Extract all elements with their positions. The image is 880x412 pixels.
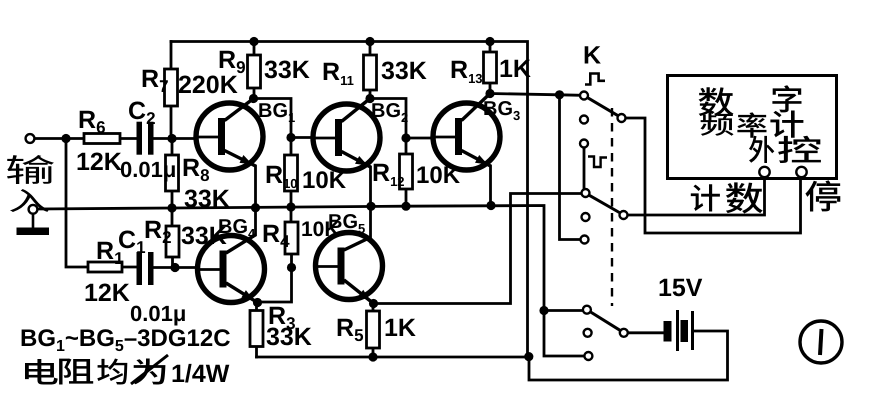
svg-text:1K: 1K <box>499 55 531 83</box>
switch K section a pole <box>618 114 626 122</box>
wire: BG1 emitter / BG4 collector vertical <box>254 166 257 235</box>
svg-text:220K: 220K <box>178 71 238 99</box>
note resistor rating 阻 <box>59 358 93 384</box>
wire: R8 leads <box>171 139 174 209</box>
resistor R11 <box>364 55 377 90</box>
wire: R11 leads <box>369 42 372 99</box>
switch K section b pole <box>620 211 628 219</box>
svg-text:BG1~BG5–3DG12C: BG1~BG5–3DG12C <box>20 325 231 355</box>
note resistor rating 电 <box>25 359 58 384</box>
node R9 top <box>249 37 258 46</box>
svg-text:12K: 12K <box>76 148 122 176</box>
wire: BG3 emitter to ground rail <box>489 166 492 206</box>
svg-text:10K: 10K <box>302 167 347 194</box>
label 外 (ext ctl) <box>749 136 774 163</box>
resistor R12 <box>400 154 413 189</box>
node BG1 collector <box>249 94 258 103</box>
svg-text:0.01μ: 0.01μ <box>130 301 186 326</box>
node BG3 base <box>401 133 410 142</box>
node input <box>61 134 70 143</box>
wire: square-wave drop to switch throw 3b <box>560 95 582 240</box>
label 计 (counter) <box>770 111 803 138</box>
wire: battery negative to power switch pole <box>628 331 663 334</box>
wire: input top terminal to R6 <box>35 137 85 140</box>
wire: R5 leads <box>372 304 375 358</box>
wire: BG2 base wire <box>291 136 337 139</box>
resistor R6 <box>84 134 120 144</box>
switch K section a throw 3 <box>580 140 588 148</box>
svg-text:33K: 33K <box>266 323 312 351</box>
wire: BG2 emitter / BG5 collector vertical <box>369 167 372 237</box>
switch K section a throw 2 <box>580 116 588 124</box>
wire: switch blade b <box>589 195 620 213</box>
label 率 (counter) <box>737 112 766 137</box>
label 停 (stop) <box>805 180 840 211</box>
svg-text:1/4W: 1/4W <box>171 360 230 388</box>
wire: power switch blade a <box>588 98 619 116</box>
wire: switch blade c <box>590 312 620 331</box>
node R5 bottom <box>368 352 377 361</box>
node R12 ground <box>401 202 410 211</box>
switch K section b throw 2 <box>582 213 590 221</box>
icon pulse-wave symbol <box>588 157 607 168</box>
figure number 1 in circle <box>800 321 842 363</box>
node square-wave out <box>555 90 564 99</box>
node BG2 emitter ground <box>366 202 375 211</box>
switch K section c throw 3 <box>584 352 592 360</box>
wire: BG5 emitter pulse output to switch throw 1b <box>374 194 583 304</box>
switch K section c throw 1 <box>583 306 591 314</box>
wire: switch pole a to counter STOP terminal <box>626 118 801 233</box>
node BG5 emitter out <box>369 299 378 308</box>
resistor R9 <box>248 55 261 88</box>
node BG3 emitter ground <box>486 201 495 210</box>
node R11 top <box>365 37 374 46</box>
resistor R3 <box>250 311 263 347</box>
label 计 (count) <box>691 184 720 211</box>
wire: R13 leads <box>489 42 492 94</box>
wire: +15V bottom rail <box>257 356 529 359</box>
wire: ganged-switch dashed link <box>611 108 613 306</box>
node BG3 collector <box>485 89 494 98</box>
wire: R9 leads <box>253 42 256 99</box>
svg-text:33K: 33K <box>264 56 310 84</box>
capacitor C1 <box>137 252 143 285</box>
wire: +15V top rail with right-side drop to bottom rail <box>171 42 528 357</box>
node R10 ground <box>286 202 295 211</box>
wire: R7 leads <box>170 42 173 139</box>
wire: C2 to BG1 base node and base <box>153 137 196 140</box>
counter STOP terminal <box>796 167 806 177</box>
label input 输 <box>7 155 54 184</box>
resistor R2 <box>166 226 179 257</box>
svg-text:33K: 33K <box>184 185 230 213</box>
wire: R12 leads <box>405 138 408 206</box>
input terminal top <box>26 134 35 143</box>
wire: battery positive to bottom rail loop <box>529 331 728 380</box>
wire: ground branch to power switch top throw <box>544 309 583 312</box>
resistor R8 <box>166 155 179 191</box>
capacitor C2 <box>137 122 143 155</box>
wire: R6 to C2 <box>120 137 137 140</box>
resistor R7 <box>165 69 178 106</box>
label 数 (count) <box>726 182 763 213</box>
note resistor rating 为 <box>133 359 166 385</box>
switch K section b throw 1 <box>582 189 590 197</box>
node BG1 emitter ground <box>251 203 260 212</box>
switch K section a throw 1 <box>580 92 588 100</box>
switch K section b throw 3 <box>581 236 589 244</box>
wire: BG3 base wire <box>406 137 456 140</box>
wire: switch pole b to counter COUNT terminal <box>628 177 765 215</box>
wire: BG1 collector node to BG2 base (R10 tap) <box>254 99 292 138</box>
node R8 ground <box>167 203 176 212</box>
resistor R13 <box>484 52 497 83</box>
wire: R4 leads <box>290 207 293 268</box>
ground <box>17 214 50 235</box>
wire: R2 leads <box>171 208 174 268</box>
icon square-wave symbol <box>585 74 605 85</box>
wire: R10 leads <box>290 138 293 208</box>
svg-text:1K: 1K <box>384 314 416 342</box>
wire: R3 leads <box>255 303 258 358</box>
wire: BG3 output square-wave to switch throw 1a <box>490 94 581 96</box>
label 频 (counter) <box>701 112 734 135</box>
input terminal bottom <box>29 205 38 214</box>
switch K section c throw 2 <box>584 329 592 337</box>
transistor BG3 <box>433 94 501 171</box>
note resistor rating 均 <box>97 358 127 384</box>
resistor R1 <box>88 262 122 272</box>
label 控 (ext ctl) <box>778 136 821 163</box>
wire: input node down-branch to R1 <box>66 139 88 268</box>
wire: BG2 collector node to BG3 base (R12 tap) <box>370 99 406 139</box>
battery 15V <box>664 310 693 351</box>
svg-text:10K: 10K <box>416 162 461 189</box>
node bottom rail B+ <box>524 352 533 361</box>
svg-text:15V: 15V <box>658 274 703 302</box>
wire: link throw 3a to throw 1b <box>583 148 586 190</box>
node BG4 emitter <box>253 298 262 307</box>
transistor BG1 <box>196 99 264 171</box>
digital frequency counter box <box>668 76 837 179</box>
wire: BG5 base node down-link to BG4 emitter <box>258 268 292 303</box>
label 字 (counter) <box>772 85 801 112</box>
transistor BG4 <box>197 235 265 303</box>
svg-text:12K: 12K <box>84 279 130 307</box>
transistor BG5 <box>315 233 383 304</box>
node BG4 base <box>170 263 179 272</box>
node BG1 base <box>167 134 176 143</box>
label input 入 <box>10 189 49 212</box>
resistor R4 <box>285 222 298 254</box>
node BG5 base <box>287 263 296 272</box>
node BG2 collector <box>365 94 374 103</box>
transistor BG2 <box>313 99 381 172</box>
switch K section c pole <box>620 329 628 337</box>
resistor R5 <box>367 311 380 348</box>
wire: R1 to C1 <box>122 266 137 269</box>
resistor R10 <box>285 155 298 191</box>
wire: C1 to BG4 base node and base <box>154 266 199 269</box>
note 为 strike mark <box>131 355 168 384</box>
label 数 (counter) <box>699 87 734 116</box>
svg-text:0.01μ: 0.01μ <box>120 157 176 182</box>
node BG2 base <box>286 133 295 142</box>
svg-text:K: K <box>583 42 601 70</box>
node ground switch branch <box>539 306 548 315</box>
node R13 top <box>485 37 494 46</box>
counter COUNT terminal <box>759 167 769 177</box>
svg-text:33K: 33K <box>381 57 427 85</box>
wire: ground mid rail from input jack to power switch contact <box>38 206 585 357</box>
